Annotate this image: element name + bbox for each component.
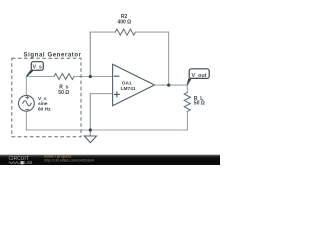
svg-text:V_s: V_s <box>33 65 42 71</box>
svg-text:OA1: OA1 <box>122 80 132 86</box>
op-amp inverting minus mark <box>114 75 119 77</box>
svg-text:http://circuitlab.com/c42t93d4: http://circuitlab.com/c42t93d4 <box>44 159 93 163</box>
wire: R_L bottom vertical <box>186 112 188 131</box>
wire: top horizontal right (R2 to feedback corner) <box>136 31 169 33</box>
node flag V_s <box>26 62 43 77</box>
wire: non-inverting vertical down to ground <box>89 94 91 136</box>
voltage source V_s minus mark <box>26 108 29 110</box>
op-amp non-inverting plus mark <box>115 92 120 97</box>
resistor R_s <box>54 74 74 80</box>
wire: R_s to op-amp inverting input <box>74 76 113 78</box>
svg-text:sine: sine <box>38 101 48 107</box>
enclosure: Signal Generator dashed box <box>12 58 81 137</box>
svg-text:V_out: V_out <box>192 73 207 79</box>
ground symbol <box>84 136 96 143</box>
wire: V_s bottom vertical <box>25 111 27 130</box>
wire: non-inverting input horizontal <box>90 93 112 95</box>
wire: top horizontal left (to R2) <box>90 31 115 33</box>
voltage source V_s circle <box>19 95 35 111</box>
svg-text:Signal Generator: Signal Generator <box>24 52 82 58</box>
svg-text:V_s: V_s <box>38 96 47 102</box>
junction: output/feedback node <box>167 84 170 87</box>
node flag V_out <box>187 69 209 85</box>
svg-text:50 Ω: 50 Ω <box>194 101 205 107</box>
wire: source corner to R_s <box>26 76 54 78</box>
wire: bottom horizontal (ground junction to R_L) <box>90 129 187 131</box>
voltage source V_s plus mark <box>26 96 29 99</box>
resistor R2 <box>115 29 135 35</box>
wire: bottom horizontal (source to ground junction) <box>26 129 90 131</box>
voltage source V_s sine mark <box>23 101 32 106</box>
wire: feedback vertical <box>168 32 170 85</box>
wire: R_L top vertical <box>186 85 188 92</box>
wire: output <box>155 84 188 86</box>
junction: inverting node <box>89 75 92 78</box>
svg-text:400 Ω: 400 Ω <box>117 19 131 25</box>
svg-text:LAB: LAB <box>24 160 32 165</box>
svg-text:50 Ω: 50 Ω <box>58 90 69 96</box>
svg-text:60 Hz: 60 Hz <box>38 106 51 112</box>
resistor R_L (vertical) <box>184 93 190 112</box>
wire: left vertical (inverting node up to R2) <box>89 32 91 76</box>
junction: ground node <box>89 128 92 131</box>
svg-text:LM741: LM741 <box>121 86 136 92</box>
wire: V_s top vertical <box>25 77 27 96</box>
op-amp OA1 triangle <box>113 64 155 106</box>
